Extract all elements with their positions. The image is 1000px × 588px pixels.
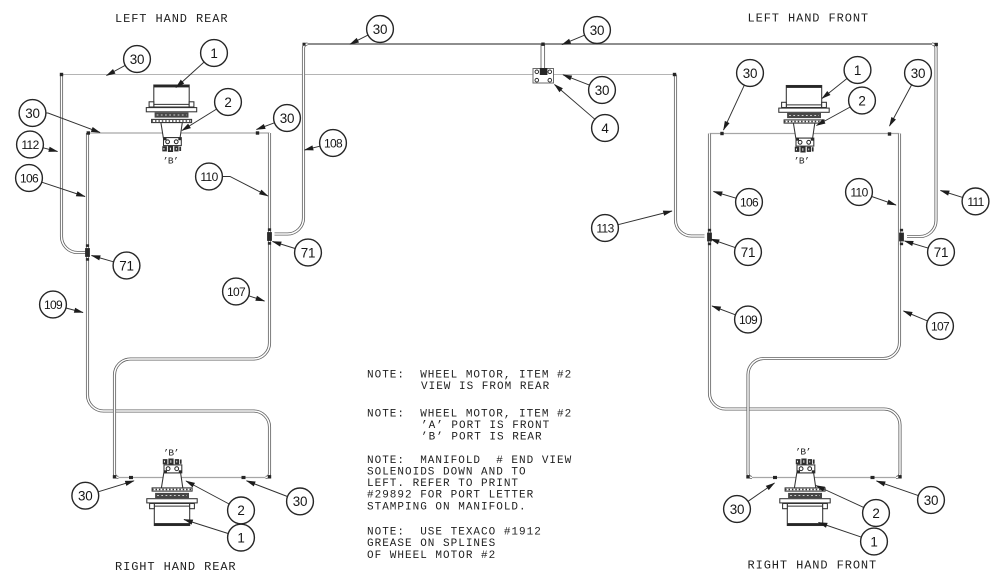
coupler 71 left (112 junction) — [85, 244, 90, 260]
fitting corner hose 108 top — [303, 43, 306, 46]
balloon 111 — [941, 188, 989, 215]
svg-text:71: 71 — [119, 258, 134, 273]
svg-text:2: 2 — [872, 506, 879, 521]
svg-text:NOTE: WHEEL MOTOR, ITEM #2: NOTE: WHEEL MOTOR, ITEM #2 — [367, 408, 572, 420]
svg-text:GREASE ON SPLINES: GREASE ON SPLINES — [367, 538, 496, 550]
balloon 2 right hand front motor — [816, 486, 889, 527]
svg-text:’B’: ’B’ — [795, 447, 811, 458]
svg-text:30: 30 — [590, 23, 605, 38]
balloon 109 left — [40, 291, 83, 318]
hose 108 (left assembly right drop from top run) — [275, 44, 308, 234]
fitting hose end right bottom header left — [773, 476, 777, 479]
svg-text:108: 108 — [324, 136, 343, 150]
svg-text:71: 71 — [934, 245, 949, 260]
balloon 30 right header-left — [724, 60, 764, 130]
fitting corner left bottom-left — [113, 475, 116, 478]
svg-text:106: 106 — [20, 171, 39, 185]
hose 111 (right outer drop from top run) — [907, 44, 936, 237]
svg-text:LEFT. REFER TO PRINT: LEFT. REFER TO PRINT — [367, 478, 519, 490]
svg-text:’B’: ’B’ — [794, 156, 810, 167]
balloon 107 right — [904, 311, 954, 339]
wheel motor U3 (right hand rear) — [147, 459, 197, 526]
balloon 30 manifold right — [563, 75, 615, 104]
manifold assembly item 4 — [533, 68, 554, 83]
note text block — [367, 370, 572, 562]
svg-text:109: 109 — [739, 313, 758, 327]
svg-text:30: 30 — [730, 502, 745, 517]
svg-text:STAMPING ON MANIFOLD.: STAMPING ON MANIFOLD. — [367, 501, 527, 513]
fitting hose end right header right — [888, 132, 891, 135]
balloon 1 left hand rear motor — [176, 40, 227, 88]
wheel motor U4 (right hand front) — [780, 459, 830, 526]
wire hose 30 manifold to right corner (y74.5) — [554, 74, 676, 76]
svg-text:30: 30 — [743, 66, 758, 81]
balloon 30 left bottom-left — [72, 481, 134, 509]
svg-text:RIGHT HAND REAR: RIGHT HAND REAR — [115, 560, 237, 574]
balloon 108 — [305, 130, 347, 157]
balloon 30 right bottom-left — [724, 483, 775, 522]
svg-text:71: 71 — [741, 245, 756, 260]
svg-text:30: 30 — [280, 111, 295, 126]
balloon 30 left header-left — [19, 100, 100, 133]
svg-text:111: 111 — [967, 195, 984, 209]
wire left motor header line (y133) — [88, 132, 270, 134]
svg-text:NOTE: WHEEL MOTOR, ITEM #2: NOTE: WHEEL MOTOR, ITEM #2 — [367, 370, 572, 382]
svg-text:30: 30 — [911, 66, 926, 81]
hose 106/109 (right inner S-path) — [710, 134, 901, 478]
svg-text:30: 30 — [595, 83, 610, 98]
balloon 106 right — [714, 189, 763, 216]
fitting corner left bottom-right — [268, 475, 271, 478]
svg-text:1: 1 — [854, 63, 861, 78]
svg-text:30: 30 — [130, 52, 145, 67]
balloon 30 top-left run — [107, 46, 151, 76]
svg-text:71: 71 — [301, 245, 316, 260]
svg-text:SOLENOIDS DOWN AND TO: SOLENOIDS DOWN AND TO — [367, 467, 527, 479]
balloon 112 — [17, 131, 58, 158]
balloon 113 — [592, 211, 672, 241]
svg-text:106: 106 — [740, 195, 759, 209]
svg-text:110: 110 — [200, 170, 218, 184]
svg-text:30: 30 — [373, 22, 388, 37]
coupler 71 right-right (111 junction) — [899, 229, 904, 245]
balloon 71 left upper-right — [273, 239, 322, 266]
balloon 1 right hand rear motor — [184, 520, 254, 551]
wire right bottom header line (y477.5) — [748, 477, 900, 479]
balloon 110 left — [196, 163, 268, 196]
svg-text:30: 30 — [78, 489, 93, 504]
balloon 71 left lower — [92, 252, 140, 279]
wire hose 30 upper manifold run (y44) — [306, 43, 934, 45]
fitting corner right top (y74.5 end) — [673, 73, 676, 76]
svg-text:2: 2 — [224, 95, 231, 110]
svg-text:’B’: ’B’ — [163, 156, 179, 167]
fitting corner hose 111 top — [935, 43, 938, 46]
balloon 107 left — [223, 278, 265, 305]
balloon 71 right-right — [905, 239, 955, 266]
balloon 4 manifold — [555, 85, 619, 142]
hose 113 (manifold to right assembly drop) — [676, 75, 705, 237]
balloon 30 right header-right — [890, 60, 932, 126]
svg-text:107: 107 — [931, 319, 950, 333]
balloon 106 left — [16, 165, 85, 197]
fitting corner right bottom-right — [898, 475, 901, 478]
svg-text:4: 4 — [601, 121, 609, 136]
fitting hose end left bottom header right — [242, 476, 246, 479]
wire left bottom header line (y477.5) — [115, 477, 270, 479]
balloon 30 right bottom-right — [877, 481, 945, 513]
coupler 71 right (113 junction) — [707, 229, 712, 245]
fitting node manifold tee — [541, 43, 544, 46]
balloon 109 right — [712, 306, 761, 333]
hose 112 (left outer drop) — [62, 75, 87, 253]
svg-text:1: 1 — [237, 531, 244, 546]
svg-text:30: 30 — [25, 106, 40, 121]
fitting hose end left header left — [87, 131, 90, 134]
svg-text:112: 112 — [21, 138, 39, 152]
balloon 30 top run right — [562, 17, 610, 45]
balloon 1 right hand front motor — [819, 523, 888, 555]
svg-text:107: 107 — [227, 285, 246, 299]
svg-text:’A’ PORT IS FRONT: ’A’ PORT IS FRONT — [421, 420, 550, 432]
svg-text:110: 110 — [850, 185, 868, 199]
svg-text:LEFT HAND REAR: LEFT HAND REAR — [115, 12, 228, 26]
fitting hose end left header right — [256, 131, 259, 134]
svg-text:2: 2 — [858, 93, 865, 108]
svg-text:RIGHT HAND FRONT: RIGHT HAND FRONT — [748, 559, 878, 573]
svg-text:109: 109 — [44, 298, 63, 312]
wheel motor U1 (left hand rear, item 2 view) — [146, 85, 196, 152]
hose 110/107 (right right-side S-path) — [748, 134, 900, 478]
svg-text:#29892 FOR PORT LETTER: #29892 FOR PORT LETTER — [367, 490, 534, 502]
svg-text:1: 1 — [210, 46, 217, 61]
balloon 110 right — [846, 179, 896, 206]
balloon 1 left hand front motor — [822, 57, 871, 99]
svg-text:VIEW IS FROM REAR: VIEW IS FROM REAR — [421, 381, 550, 393]
fitting corner right bottom-left — [746, 475, 749, 478]
balloon 2 left hand front motor — [817, 87, 876, 125]
svg-text:30: 30 — [924, 493, 939, 508]
svg-text:NOTE: MANIFOLD # END VIEW: NOTE: MANIFOLD # END VIEW — [367, 455, 572, 467]
svg-text:’B’ PORT IS REAR: ’B’ PORT IS REAR — [421, 432, 543, 444]
wheel motor U2 (left hand front) — [779, 86, 829, 153]
hose 110/107 (left right-side S-path) — [115, 133, 270, 478]
fitting hose end left bottom header left — [129, 476, 133, 479]
balloon 2 right hand rear motor — [186, 481, 254, 524]
svg-text:30: 30 — [293, 494, 308, 509]
wire hose 30 left run to manifold (y74.5) — [62, 74, 534, 76]
svg-text:’B’: ’B’ — [163, 448, 179, 459]
balloon 30 left bottom-right — [247, 481, 314, 515]
hose 106/109 (left inner S-path) — [88, 133, 270, 478]
svg-text:OF WHEEL MOTOR #2: OF WHEEL MOTOR #2 — [367, 550, 496, 562]
balloon 2 left hand rear motor — [182, 89, 241, 131]
svg-text:LEFT HAND FRONT: LEFT HAND FRONT — [748, 12, 870, 26]
balloon 71 right lower — [711, 239, 762, 266]
balloon 30 left header-right — [257, 105, 301, 132]
svg-text:2: 2 — [237, 503, 244, 518]
svg-text:NOTE: USE TEXACO #1912: NOTE: USE TEXACO #1912 — [367, 527, 542, 539]
fitting hose end right header left — [720, 132, 723, 135]
fitting corner left top — [60, 73, 63, 76]
coupler 71 left-right (108 junction) — [267, 228, 272, 244]
svg-text:113: 113 — [596, 221, 614, 235]
balloon 30 top run left — [350, 16, 393, 45]
wire manifold feed pair — [541, 45, 545, 69]
fitting hose end right bottom header right — [871, 476, 875, 479]
wire right motor header line (y133.5) — [710, 133, 900, 135]
svg-text:1: 1 — [870, 534, 877, 549]
